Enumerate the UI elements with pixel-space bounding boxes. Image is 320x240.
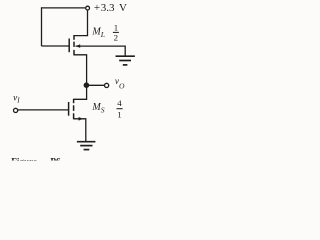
label ratio 4/1 xyxy=(117,98,123,119)
wire top loop horizontal xyxy=(42,7,86,9)
ground GND1 (ML body) xyxy=(116,56,135,65)
label ratio 1/2 xyxy=(113,23,119,43)
node vO junction dot xyxy=(84,82,90,88)
transistor ML gate bar xyxy=(68,39,70,53)
svg-text:1: 1 xyxy=(117,109,121,119)
transistor MS channel segment top xyxy=(73,99,75,103)
wire ML source lead down to output node xyxy=(74,55,87,86)
wire MS drain up to node xyxy=(74,85,87,99)
terminal vO xyxy=(105,83,109,87)
bottom fade (page crop) xyxy=(0,159,154,162)
svg-text:1: 1 xyxy=(114,23,118,33)
wire top loop left vertical xyxy=(41,7,43,46)
transistor MS channel segment middle xyxy=(73,105,75,111)
power terminal +3.3 V xyxy=(86,6,90,10)
wire output node to vO terminal xyxy=(87,84,105,86)
svg-text:2: 2 xyxy=(114,33,118,43)
wire ML body lead to ground xyxy=(76,46,126,56)
wire MS source lead to ground xyxy=(74,119,86,142)
transistor ML channel segment top xyxy=(73,35,75,40)
svg-text:+3.3V: +3.3V xyxy=(94,2,127,14)
svg-text:4: 4 xyxy=(117,98,122,108)
transistor MS source arrowhead xyxy=(79,117,84,121)
transistor ML body arrowhead xyxy=(76,44,81,48)
transistor ML channel segment bottom xyxy=(73,50,75,56)
wire ML gate lead xyxy=(42,45,69,47)
wire vI terminal to MS gate xyxy=(18,109,68,111)
terminal vI xyxy=(14,108,18,112)
transistor MS gate bar xyxy=(68,102,70,116)
ground GND2 (MS source) xyxy=(77,142,96,150)
transistor MS channel segment bottom xyxy=(73,113,75,119)
transistor ML channel segment middle xyxy=(73,42,75,47)
wire VDD to ML drain xyxy=(74,10,88,35)
